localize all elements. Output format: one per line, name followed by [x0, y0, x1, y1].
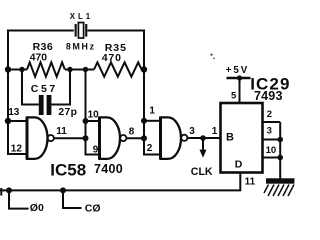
svg-text:9: 9 [93, 144, 99, 155]
svg-text:470: 470 [102, 52, 122, 64]
node dot rail-row left [5, 66, 11, 72]
wire C57 branch left [22, 69, 39, 105]
wire mid drop rail [86, 70, 100, 155]
wire tap phi0 [9, 190, 29, 208]
wire top rail left [8, 30, 74, 32]
wire right rail [144, 30, 160, 155]
wire resistor row left [8, 69, 27, 71]
nand gate IC58b U2 [100, 117, 127, 159]
svg-text:5: 5 [231, 91, 237, 102]
wire pin10 stub [86, 120, 100, 122]
svg-text:1: 1 [212, 126, 218, 137]
wire pin13 stub [8, 120, 27, 122]
svg-text:3: 3 [189, 126, 195, 137]
capacitor C57 [39, 95, 52, 115]
wire pin11 and bottom rail [0, 173, 240, 191]
wire left edge tick [0, 188, 2, 196]
wire C57 branch right [51, 70, 70, 105]
svg-text:7400: 7400 [94, 162, 123, 176]
node dot pin3 tie [277, 137, 283, 143]
nand gate IC58c U3 [161, 117, 188, 159]
speck [213, 58, 215, 60]
svg-text:2: 2 [147, 143, 153, 154]
svg-text:11: 11 [56, 126, 67, 137]
nand gate IC58a U1 [27, 117, 54, 159]
svg-text:10: 10 [88, 110, 100, 121]
svg-text:XL1: XL1 [70, 12, 93, 21]
ground [264, 178, 294, 196]
node dot C57 top [19, 67, 24, 72]
svg-text:10: 10 [266, 145, 277, 156]
node dot bottom rail Cphi [60, 187, 66, 193]
wire left rail [8, 30, 27, 155]
wire top rail right [87, 30, 144, 32]
wire resistor row middle [65, 69, 94, 71]
node dot gate1 out [83, 135, 89, 141]
resistor R35 [94, 62, 142, 76]
svg-text:C57: C57 [31, 83, 58, 95]
svg-text:1: 1 [149, 105, 155, 116]
svg-text:13: 13 [8, 107, 20, 118]
svg-text:3: 3 [267, 126, 272, 137]
node dot pin10 tie [277, 155, 283, 161]
wire gate2 output [127, 137, 144, 139]
wire gate1 output [54, 137, 85, 139]
resistor R36 [27, 62, 65, 76]
svg-text:7493: 7493 [254, 89, 283, 103]
wire pin1 stub [144, 120, 160, 122]
svg-text:12: 12 [11, 144, 23, 155]
node dot bottom rail phi0 [6, 187, 12, 193]
svg-text:D: D [235, 158, 243, 170]
speck [210, 54, 212, 56]
node dot gate2 out [141, 135, 147, 141]
node dot mid drop [83, 67, 88, 72]
svg-text:2: 2 [267, 109, 272, 120]
svg-text:470: 470 [30, 52, 47, 63]
node dot +5V [237, 75, 242, 80]
wire pin10 [263, 157, 281, 159]
svg-text:CLK: CLK [191, 166, 213, 178]
svg-text:B: B [226, 132, 234, 144]
svg-text:8MHz: 8MHz [66, 41, 96, 51]
svg-text:+5V: +5V [226, 65, 250, 76]
node dot pin13 [5, 118, 11, 124]
counter IC29 box [221, 103, 263, 173]
svg-text:R36: R36 [33, 41, 53, 53]
node dot pin10 [83, 118, 89, 124]
node dot CLK [200, 135, 206, 141]
wire pin3 [263, 139, 281, 141]
wire right tie [279, 122, 281, 179]
node dot rail-row right [141, 66, 147, 72]
wire pin2 [263, 121, 281, 123]
svg-text:CØ: CØ [85, 203, 101, 215]
svg-text:11: 11 [245, 176, 256, 187]
CLK arrow [200, 138, 207, 158]
svg-text:27p: 27p [58, 107, 77, 118]
wire tap Cphi [63, 190, 82, 208]
crystal XL1 [75, 23, 88, 39]
wire resistor row right [142, 69, 144, 71]
wire gate3 output to IC29 [188, 137, 221, 139]
node dot pin1 [141, 118, 147, 124]
node dot C57 right [67, 67, 72, 72]
power +5V bar [227, 78, 251, 103]
svg-text:8: 8 [129, 127, 135, 138]
svg-text:Ø0: Ø0 [30, 202, 44, 214]
svg-text:IC58: IC58 [50, 161, 86, 180]
